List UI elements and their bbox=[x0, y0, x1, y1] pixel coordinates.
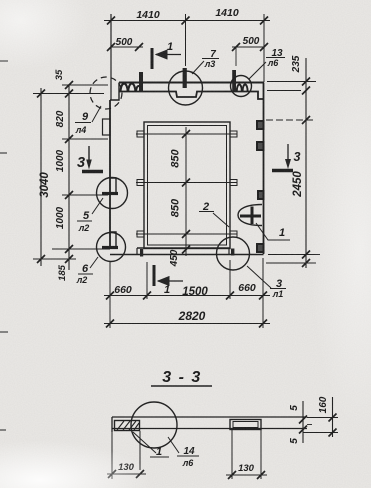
right edge notch 3 bbox=[258, 191, 264, 199]
plan right edge bbox=[263, 83, 265, 255]
section slab top line bbox=[112, 416, 307, 418]
top edge loops right group bbox=[237, 85, 242, 91]
plan bottom outer edge bbox=[110, 254, 264, 256]
callout circle bottom-right bbox=[217, 237, 250, 270]
bottom step right bbox=[228, 248, 230, 255]
right row y=120 dashed bbox=[266, 119, 314, 121]
section leader 1 bbox=[133, 432, 156, 453]
section 130 left extension bbox=[111, 432, 113, 479]
inner row y=183 bbox=[136, 182, 237, 184]
callout circle left-bottom bbox=[97, 233, 126, 262]
bottom extension x=147 bbox=[146, 262, 148, 299]
leader 7/l3 bbox=[192, 61, 204, 74]
extension line left x=111 bbox=[110, 14, 112, 100]
plan left edge bbox=[109, 100, 111, 249]
section dim line 160 x=332.5 bbox=[332, 397, 334, 437]
ticks on right chain bbox=[302, 78, 310, 86]
left row y=195 bbox=[62, 194, 108, 196]
top edge loops left group bbox=[121, 84, 128, 92]
left row y=85 bbox=[62, 84, 108, 86]
bottom step left pin bbox=[140, 249, 143, 257]
extension line mid x=185.5 bbox=[185, 14, 187, 66]
plan top inner edge with dips bbox=[119, 92, 264, 100]
ticks on 3040 line bbox=[37, 90, 45, 98]
right row y=90.5 bbox=[267, 90, 301, 92]
left-bottom detail step bbox=[110, 232, 116, 246]
dimension 500 top-left bbox=[111, 46, 143, 48]
section 130 left dim bbox=[107, 473, 146, 475]
right row y=81.5 bbox=[267, 81, 316, 83]
tick top-right bbox=[260, 17, 268, 25]
section mark 3 left bbox=[82, 146, 103, 172]
bottom extension x=110 bbox=[109, 262, 111, 328]
section leader 14 bbox=[168, 437, 179, 453]
left row y=251 bbox=[52, 248, 110, 250]
section mark 1 top bbox=[152, 48, 181, 69]
leader 5/l2 bbox=[92, 198, 103, 214]
inner rectangle inner bbox=[148, 126, 227, 246]
leader to label 1 right bbox=[256, 223, 290, 240]
section slab bottom line bbox=[112, 428, 307, 430]
top edge pin right bbox=[232, 70, 236, 91]
stray scan dashes left margin bbox=[0, 60, 8, 62]
tick top-mid bbox=[182, 17, 190, 25]
top edge pin middle bbox=[183, 68, 187, 88]
right edge notch 1 bbox=[257, 121, 264, 129]
bottom extension x=230 bbox=[229, 260, 231, 299]
right edge notch 4 bbox=[257, 244, 264, 252]
tick top-left bbox=[107, 17, 115, 25]
inner vertical dim line x=176 bbox=[185, 127, 187, 256]
left-bottom detail bar bbox=[102, 246, 118, 249]
left row y=93 bbox=[33, 93, 104, 95]
section 130 right dim bbox=[226, 474, 267, 476]
extension line right x=264 bbox=[263, 14, 265, 82]
inner row y=230 bbox=[136, 233, 237, 235]
callout circle left-middle bbox=[97, 178, 128, 209]
embedded plate left (hatched) bbox=[115, 421, 140, 431]
bottom dim row 2820 bbox=[104, 323, 270, 325]
leader 3/l1 bbox=[247, 266, 271, 288]
callout circle top-middle bbox=[169, 71, 203, 105]
dimension line 3040 x=41 bbox=[40, 88, 42, 266]
top edge pin left bbox=[139, 72, 143, 92]
label underlines bbox=[202, 58, 219, 60]
dimension 500 top-right bbox=[232, 46, 264, 48]
callout circle top-left (dashed) bbox=[90, 77, 122, 109]
plan top-left corner step bbox=[110, 83, 119, 101]
leader 6/l2 bbox=[90, 257, 98, 268]
edge tabs at rows bbox=[137, 131, 144, 137]
inner ticks bbox=[182, 130, 190, 138]
inner row y=133 bbox=[136, 133, 237, 135]
bottom dim row 660/1500/660 bbox=[104, 295, 270, 297]
right row y=254 bbox=[268, 254, 320, 256]
ticks on left chain bbox=[65, 81, 73, 89]
left row y=139 bbox=[62, 138, 108, 140]
section 130 right extensions bbox=[231, 430, 233, 479]
plan bottom inner edge bbox=[137, 247, 230, 249]
inner rectangle outer bbox=[144, 122, 230, 249]
right row y=263 bbox=[266, 262, 316, 264]
left-middle detail step bbox=[110, 178, 116, 192]
bottom step left bbox=[136, 248, 138, 255]
left row y=261 bbox=[33, 258, 76, 260]
right edge notch 2 bbox=[257, 142, 264, 150]
plan outline: top outer edge bbox=[119, 82, 264, 84]
bottom extension x=263 bbox=[262, 258, 264, 328]
section dim line 5/5 x=303 bbox=[302, 401, 304, 443]
section right extension lines bbox=[307, 417, 338, 419]
extension x=236 to pin bbox=[235, 47, 237, 66]
section 3-3 title underline bbox=[151, 385, 212, 387]
leader 13/l6 bbox=[249, 62, 266, 79]
left chain dimension line x=69 bbox=[68, 84, 70, 270]
lifting loop item 1 bbox=[238, 205, 262, 226]
section slab left edge bbox=[111, 417, 113, 432]
light patches bbox=[0, 0, 1, 1]
right chain dimension line x=306 bbox=[305, 58, 307, 268]
top dimension line 2x1410 bbox=[104, 20, 270, 22]
left edge notch bbox=[103, 119, 111, 135]
embedded plate right bbox=[230, 420, 261, 430]
leader 9/l4 bbox=[92, 106, 101, 122]
section mark 1 bottom bbox=[154, 265, 183, 286]
left-middle detail bar bbox=[102, 192, 118, 195]
section callout circle bbox=[131, 402, 177, 448]
section mark 3 right bbox=[272, 144, 293, 171]
scan noise overlay bbox=[0, 0, 1, 1]
bottom-right detail pin bbox=[231, 249, 234, 256]
leader 2 bbox=[213, 213, 229, 227]
callout circle top-right bbox=[231, 76, 252, 97]
